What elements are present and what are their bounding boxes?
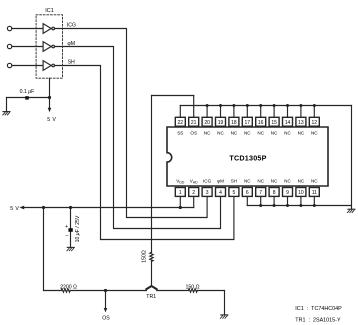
svg-text:5 V: 5 V bbox=[47, 117, 56, 123]
transistor Q1 TR1 bbox=[145, 286, 158, 291]
svg-text:NC: NC bbox=[271, 179, 278, 184]
capacitor C2 10uF branch bbox=[70, 208, 72, 247]
svg-text:1: 1 bbox=[179, 190, 182, 196]
svg-text:φM: φM bbox=[67, 41, 75, 47]
pin labels bottom row bbox=[176, 179, 318, 185]
wire input2 to inverter bbox=[12, 46, 43, 48]
svg-text:IC1 : TC74HC04P: IC1 : TC74HC04P bbox=[295, 306, 342, 312]
svg-text:NC: NC bbox=[311, 179, 318, 184]
wire pin21 OS riser bbox=[193, 96, 195, 118]
ground left bbox=[3, 112, 10, 115]
svg-text:TR1 : 2SA1015-Y: TR1 : 2SA1015-Y bbox=[295, 318, 341, 324]
wire top NC bus bbox=[180, 105, 351, 107]
svg-text:NC: NC bbox=[217, 131, 224, 136]
svg-text:5 V: 5 V bbox=[10, 206, 19, 212]
svg-text:TCD1305P: TCD1305P bbox=[229, 153, 266, 162]
pin numbers bottom bbox=[179, 190, 317, 196]
svg-text:NC: NC bbox=[204, 131, 211, 136]
svg-text:OS: OS bbox=[102, 316, 110, 322]
wire NC risers top bbox=[206, 106, 208, 118]
pin labels top row bbox=[177, 131, 318, 136]
wire 2200 row bbox=[44, 290, 62, 292]
svg-text:TR1: TR1 bbox=[146, 294, 156, 300]
ground right top bbox=[348, 209, 355, 212]
svg-text:20: 20 bbox=[204, 120, 210, 126]
svg-text:NC: NC bbox=[244, 179, 251, 184]
wire TR1 right to 150 bbox=[157, 290, 189, 292]
wire NC risers bottom bbox=[246, 196, 248, 205]
IC1 dashed box bbox=[36, 15, 62, 78]
svg-text:ICG: ICG bbox=[203, 179, 212, 184]
svg-text:13: 13 bbox=[298, 120, 304, 126]
wire input3 to inverter bbox=[12, 65, 43, 67]
svg-text:16: 16 bbox=[258, 120, 264, 126]
node junction IC1 supply bbox=[48, 96, 51, 99]
svg-text:4: 4 bbox=[219, 190, 222, 196]
svg-text:SH: SH bbox=[68, 60, 75, 66]
ground under 10uF bbox=[67, 247, 74, 250]
svg-text:NC: NC bbox=[231, 131, 238, 136]
svg-text:10: 10 bbox=[298, 190, 304, 196]
svg-text:NC: NC bbox=[257, 179, 264, 184]
svg-text:2200 Ω: 2200 Ω bbox=[60, 284, 77, 290]
svg-text:NC: NC bbox=[298, 131, 305, 136]
capacitor C1 0.1uF bbox=[25, 96, 29, 99]
svg-text:150 Ω: 150 Ω bbox=[186, 284, 200, 290]
wire OS top horizontal bbox=[152, 95, 194, 97]
svg-text:NC: NC bbox=[244, 131, 251, 136]
pin boxes top bbox=[175, 117, 319, 126]
wire bottom NC bus bbox=[247, 205, 351, 207]
node dots top bus bbox=[206, 104, 316, 107]
svg-text:10 μF / 25V: 10 μF / 25V bbox=[75, 215, 81, 242]
wire SH net bbox=[55, 66, 234, 240]
svg-text:6: 6 bbox=[246, 190, 249, 196]
svg-text:18: 18 bbox=[231, 120, 237, 126]
svg-text:OS: OS bbox=[190, 131, 197, 136]
svg-text:19: 19 bbox=[218, 120, 224, 126]
svg-text:IC1: IC1 bbox=[45, 8, 54, 14]
svg-text:NC: NC bbox=[298, 179, 305, 184]
pin boxes bottom bbox=[175, 188, 319, 197]
op-amp U1b inverter phiM bbox=[43, 42, 54, 52]
IC U2 TCD1305P body bbox=[167, 127, 328, 186]
svg-text:12: 12 bbox=[312, 120, 318, 126]
svg-text:+: + bbox=[65, 224, 68, 230]
svg-text:5: 5 bbox=[233, 190, 236, 196]
svg-text:SS: SS bbox=[177, 131, 183, 136]
op-amp U1a inverter ICG bbox=[43, 24, 54, 34]
op-amp U1c inverter SH bbox=[43, 61, 54, 71]
wire OS output arrow bbox=[105, 291, 107, 309]
svg-text:NC: NC bbox=[284, 179, 291, 184]
wire pin1 riser bbox=[179, 196, 181, 207]
svg-text:14: 14 bbox=[285, 120, 291, 126]
wire input1 to inverter bbox=[12, 28, 43, 30]
svg-text:2: 2 bbox=[192, 190, 195, 196]
wire IC1 power stub bbox=[49, 78, 51, 97]
node input terminal 3 bbox=[7, 63, 11, 67]
svg-text:9: 9 bbox=[286, 190, 289, 196]
svg-text:21: 21 bbox=[191, 120, 197, 126]
svg-text:22: 22 bbox=[178, 120, 184, 126]
svg-text:NC: NC bbox=[311, 131, 318, 136]
svg-text:15: 15 bbox=[271, 120, 277, 126]
svg-text:7: 7 bbox=[259, 190, 262, 196]
wire phiM net bbox=[55, 47, 221, 229]
svg-text:–: – bbox=[65, 232, 68, 238]
svg-text:11: 11 bbox=[312, 190, 317, 196]
wire OS vertical bbox=[151, 96, 153, 253]
svg-text:3: 3 bbox=[206, 190, 209, 196]
wire pin2 riser bbox=[193, 196, 195, 207]
wire 2200 branch vertical bbox=[43, 208, 45, 291]
wire 5V arrow IC1 bbox=[49, 98, 51, 109]
node dots on rail bbox=[42, 206, 182, 209]
svg-text:0.1 μF: 0.1 μF bbox=[20, 89, 35, 95]
wire right vertical to ground bbox=[351, 106, 353, 210]
svg-text:17: 17 bbox=[245, 120, 251, 126]
svg-text:NC: NC bbox=[271, 131, 278, 136]
node dots bottom bus bbox=[259, 204, 316, 207]
resistor R150 vertical bbox=[150, 252, 153, 261]
wire pin22 SS riser bbox=[179, 106, 181, 118]
svg-text:NC: NC bbox=[257, 131, 264, 136]
svg-text:8: 8 bbox=[273, 190, 276, 196]
wire cap to ground bbox=[6, 98, 8, 112]
wire to bypass cap bbox=[7, 97, 50, 99]
svg-text:NC: NC bbox=[284, 131, 291, 136]
wire down to ground right bbox=[224, 291, 226, 315]
svg-text:150Ω: 150Ω bbox=[142, 250, 148, 263]
pin numbers top bbox=[178, 120, 318, 126]
svg-text:ICG: ICG bbox=[67, 22, 76, 28]
resistor R2200 bbox=[61, 289, 70, 292]
wire 5V rail bbox=[23, 207, 194, 209]
svg-text:SH: SH bbox=[231, 179, 237, 184]
ground bottom right bbox=[220, 315, 227, 318]
svg-text:φM: φM bbox=[217, 179, 224, 184]
node junction OS out bbox=[104, 289, 107, 292]
node input terminal 2 bbox=[7, 44, 11, 48]
wire ICG net bbox=[55, 29, 208, 218]
node input terminal 1 bbox=[7, 26, 11, 30]
resistor R150b bbox=[188, 289, 197, 292]
